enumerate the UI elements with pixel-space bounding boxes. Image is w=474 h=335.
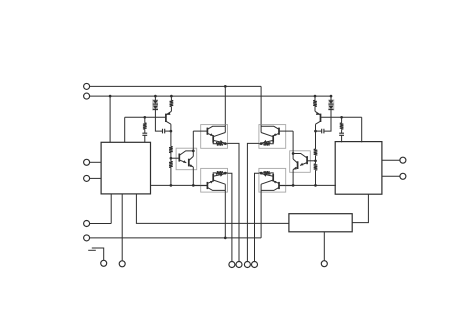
wire logic interconnect to delay block (136, 194, 289, 224)
wire ground to logic block (90, 223, 112, 225)
terminal supply 1 (84, 83, 90, 89)
wire rail2 to left logic block (109, 96, 111, 142)
terminal switch (101, 260, 107, 266)
wire right logic to delay block (352, 194, 368, 222)
wire lower-left emitter to output (228, 173, 232, 261)
node collector return (224, 237, 227, 240)
wire predriver emitter to control rail left (192, 167, 194, 186)
terminal output B1 (244, 262, 250, 268)
darlington lower-right (259, 168, 293, 192)
terminal supply 2 (84, 93, 90, 99)
wire collector to chain right (315, 124, 317, 149)
terminal input left 1 (84, 159, 90, 165)
predriver chain right (290, 149, 318, 172)
wire common collector return (90, 237, 262, 239)
wire delay block pin down (323, 232, 325, 261)
wire input left 1 (90, 161, 102, 163)
wire lower-right emitter to output (255, 173, 259, 261)
terminal input right 2 (400, 173, 406, 179)
right logic block (335, 142, 382, 195)
wire chain to control rail right (315, 170, 317, 185)
terminal ground left (84, 221, 90, 227)
terminal output A2 (236, 262, 242, 268)
wire input right 2 (382, 175, 400, 177)
wire predriver collector to darlington base left (192, 131, 194, 156)
wire upper-left emitter to output (228, 143, 240, 261)
wire supply rail 1 (90, 85, 262, 87)
wire lower-left collector drop (224, 192, 226, 238)
wire upper-right emitter to output (247, 143, 259, 261)
wire predriver emitter to control rail right (292, 170, 294, 186)
wire predriver collector to darlington base right (292, 131, 294, 159)
left logic block (101, 142, 150, 194)
node predriver emitter rail left (192, 184, 195, 187)
wire collector to chain left (170, 124, 172, 146)
terminal common return (84, 235, 90, 241)
terminal output B2 (252, 262, 258, 268)
darlington upper-left (193, 125, 227, 149)
wire rail1 drop right (260, 86, 262, 124)
node predriver emitter rail right (292, 184, 295, 187)
node rail2 logic drop (109, 95, 112, 98)
node chain control rail right (314, 184, 317, 187)
delay block (289, 214, 352, 232)
predriver cluster right (279, 95, 362, 186)
node chain control rail left (170, 184, 173, 187)
wire supply rail 2 (90, 95, 331, 97)
wire input right 1 (382, 159, 400, 161)
terminal delay (321, 261, 327, 267)
predriver chain left (169, 146, 197, 169)
predriver cluster left (125, 95, 208, 186)
darlington upper-right (259, 125, 293, 149)
terminal input left 2 (84, 175, 90, 181)
terminal output A1 (229, 262, 235, 268)
wire logic pin to bottom terminal (121, 194, 123, 261)
wire logic pin down-left (110, 194, 112, 224)
wire rail1 drop left (224, 86, 226, 124)
darlington lower-left (193, 168, 227, 192)
wire input left 2 (90, 177, 102, 179)
terminal input right 1 (400, 157, 406, 163)
node rail1 left drop (224, 85, 227, 88)
terminal logic bottom (119, 261, 125, 267)
wire chain to control rail left (170, 168, 172, 186)
switch symbol (92, 248, 104, 260)
wire lower-right collector drop (260, 192, 262, 238)
